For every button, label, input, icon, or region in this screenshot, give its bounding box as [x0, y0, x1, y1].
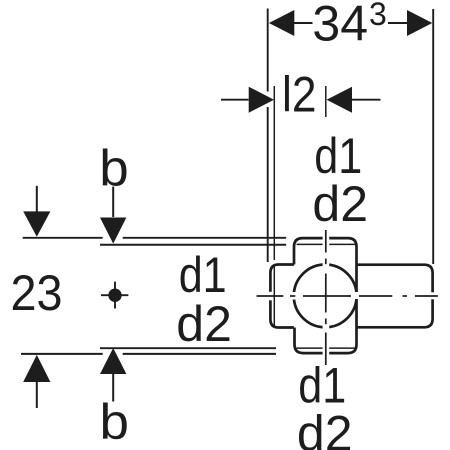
fitting body: bore circle — [294, 265, 357, 328]
horizontal centerline dash 3 — [359, 295, 392, 297]
dimension l2: right tick line — [325, 86, 327, 117]
vertical centerline dash 3 — [325, 333, 327, 366]
fitting body: inner wall line in bottom socket — [297, 347, 356, 349]
label b (bottom) — [100, 393, 129, 449]
svg-text:l2: l2 — [282, 67, 317, 123]
svg-text:b: b — [100, 393, 129, 449]
dimension l2: left tail line — [221, 99, 249, 101]
bottom pipe: outer wall line (right of arrow gap) — [123, 353, 276, 355]
center point marker: filled dot — [108, 289, 121, 302]
dimension 23 top: arrowhead pointing down — [23, 211, 50, 236]
dimension b top: arrowhead pointing down — [100, 218, 126, 244]
svg-text:d2: d2 — [176, 296, 232, 352]
dimension 23 top: leader line — [36, 186, 38, 212]
fitting body: inner wall line in left tab — [273, 265, 275, 327]
vertical centerline dot 1 — [325, 259, 327, 265]
svg-text:3: 3 — [369, 0, 387, 32]
dimension 34_3: right extension line — [432, 9, 434, 264]
fitting body: right socket rounded rectangle — [357, 265, 433, 328]
svg-text:d2: d2 — [297, 405, 353, 450]
top pipe: outer wall line (right of arrow gap) — [123, 237, 287, 239]
fitting body: vertical socket outline — [294, 238, 357, 353]
fitting body: left tab outline — [270, 265, 294, 328]
white gap: vertical centerline crossing top socket edge and circle top — [323, 235, 330, 269]
dimension b top: leader line — [112, 187, 114, 217]
dimension l2: right tail line — [352, 99, 381, 101]
bottom pipe: inner wall line — [100, 347, 276, 349]
horizontal centerline dot 1 — [290, 295, 295, 297]
label b (top) — [99, 141, 128, 198]
white gap: horizontal centerline crossing circle left — [290, 292, 297, 300]
horizontal centerline dash 1 — [257, 295, 284, 297]
dimension 23 bottom: arrowhead pointing up — [23, 355, 50, 382]
white gap: horizontal centerline crossing left tab edge — [267, 292, 273, 301]
center point marker: vertical tick — [114, 282, 116, 309]
dimension 34_3: right arrowhead — [407, 10, 432, 36]
dimension b bottom: leader line — [112, 374, 114, 402]
svg-text:23: 23 — [11, 265, 63, 321]
dimension 34_3: dimension line left segment — [294, 22, 313, 24]
top pipe: inner wall line — [100, 244, 286, 246]
white gap: horizontal centerline crossing circle right and socket edge — [354, 292, 361, 299]
svg-text:34: 34 — [312, 0, 368, 52]
fitting body: inner wall line in top socket — [297, 243, 356, 245]
dimension l2: left tick line (runs down into fitting left tab) — [273, 86, 275, 260]
top pipe: outer wall line (left of arrow gap) — [23, 237, 103, 239]
center point marker: horizontal tick — [101, 294, 128, 296]
vertical centerline dash 1 — [325, 230, 327, 253]
white gap: vertical centerline crossing circle bottom and bottom socket edge — [323, 324, 330, 357]
horizontal centerline dash 4 — [415, 295, 438, 297]
dimension l2: left arrowhead — [249, 87, 274, 113]
dimension 34_3: left extension line (lower segment, continues to fitting) — [267, 107, 269, 262]
dimension 34_3: dimension line right segment — [388, 22, 408, 24]
svg-text:d2: d2 — [312, 176, 368, 232]
dimension 34_3: left arrowhead — [269, 10, 294, 36]
horizontal centerline dash 2 (through center) — [303, 295, 351, 297]
bottom pipe: outer wall line (left of arrow gap) — [21, 353, 103, 355]
svg-text:d1: d1 — [179, 247, 227, 303]
white gap: horizontal centerline crossing right socket right edge — [429, 292, 436, 299]
horizontal centerline dot 2 — [403, 295, 408, 297]
dimension l2: right arrowhead — [327, 87, 352, 113]
vertical centerline dot 2 — [325, 319, 327, 325]
vertical centerline dash 2 (through center) — [325, 274, 327, 313]
dimension 34_3: left extension line (upper segment) — [267, 9, 269, 92]
dimension b bottom: arrowhead pointing up — [100, 348, 126, 374]
dimension 23 bottom: leader line — [36, 382, 38, 408]
